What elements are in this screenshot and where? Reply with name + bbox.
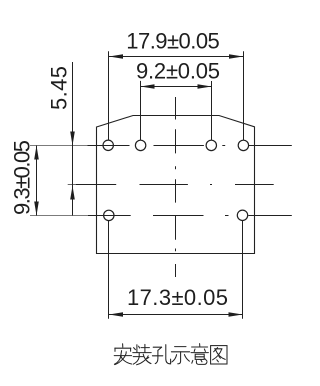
svg-text:9.2±0.05: 9.2±0.05 xyxy=(136,58,220,83)
svg-text:5.45: 5.45 xyxy=(47,66,72,110)
svg-text:17.9±0.05: 17.9±0.05 xyxy=(126,28,220,53)
svg-text:9.3±0.05: 9.3±0.05 xyxy=(9,140,34,215)
svg-text:17.3±0.05: 17.3±0.05 xyxy=(127,285,228,310)
